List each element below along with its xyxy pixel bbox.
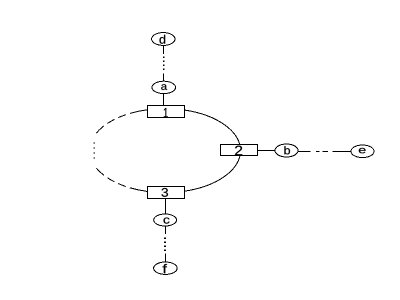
cycle ellipse dashed upper-left arc	[95, 110, 147, 135]
node b label "b"	[284, 146, 290, 154]
node d label "d"	[160, 35, 166, 44]
box 1 value label "1"	[164, 108, 168, 117]
box 3	[148, 187, 185, 199]
node f	[154, 262, 178, 274]
node d	[152, 33, 175, 46]
node f label "f"	[163, 264, 167, 273]
wire edge d-a (dotted)	[163, 45, 165, 81]
box 1	[148, 106, 185, 118]
cycle ellipse solid right arc	[185, 110, 241, 191]
node e	[351, 145, 374, 158]
wire edge a-1 (solid)	[163, 93, 165, 105]
node c label "c"	[164, 217, 170, 223]
cycle ellipse dashed lower-left arc	[95, 166, 147, 191]
box 3 value label "3"	[162, 188, 168, 197]
node b	[275, 144, 298, 157]
wire edge 3-c (solid)	[165, 198, 167, 214]
wire edge 2-b (solid)	[257, 150, 275, 152]
node c	[154, 214, 177, 226]
node a label "a"	[161, 84, 167, 90]
cycle ellipse dotted left vertex (vertical ellipsis)	[93, 142, 95, 158]
node e label "e"	[359, 148, 366, 153]
box 2 value label "2"	[235, 146, 242, 156]
wire edge b-e (dash-dot)	[298, 151, 352, 153]
box 2	[221, 145, 258, 156]
wire edge c-f (dotted)	[165, 226, 167, 262]
node a	[152, 81, 176, 93]
